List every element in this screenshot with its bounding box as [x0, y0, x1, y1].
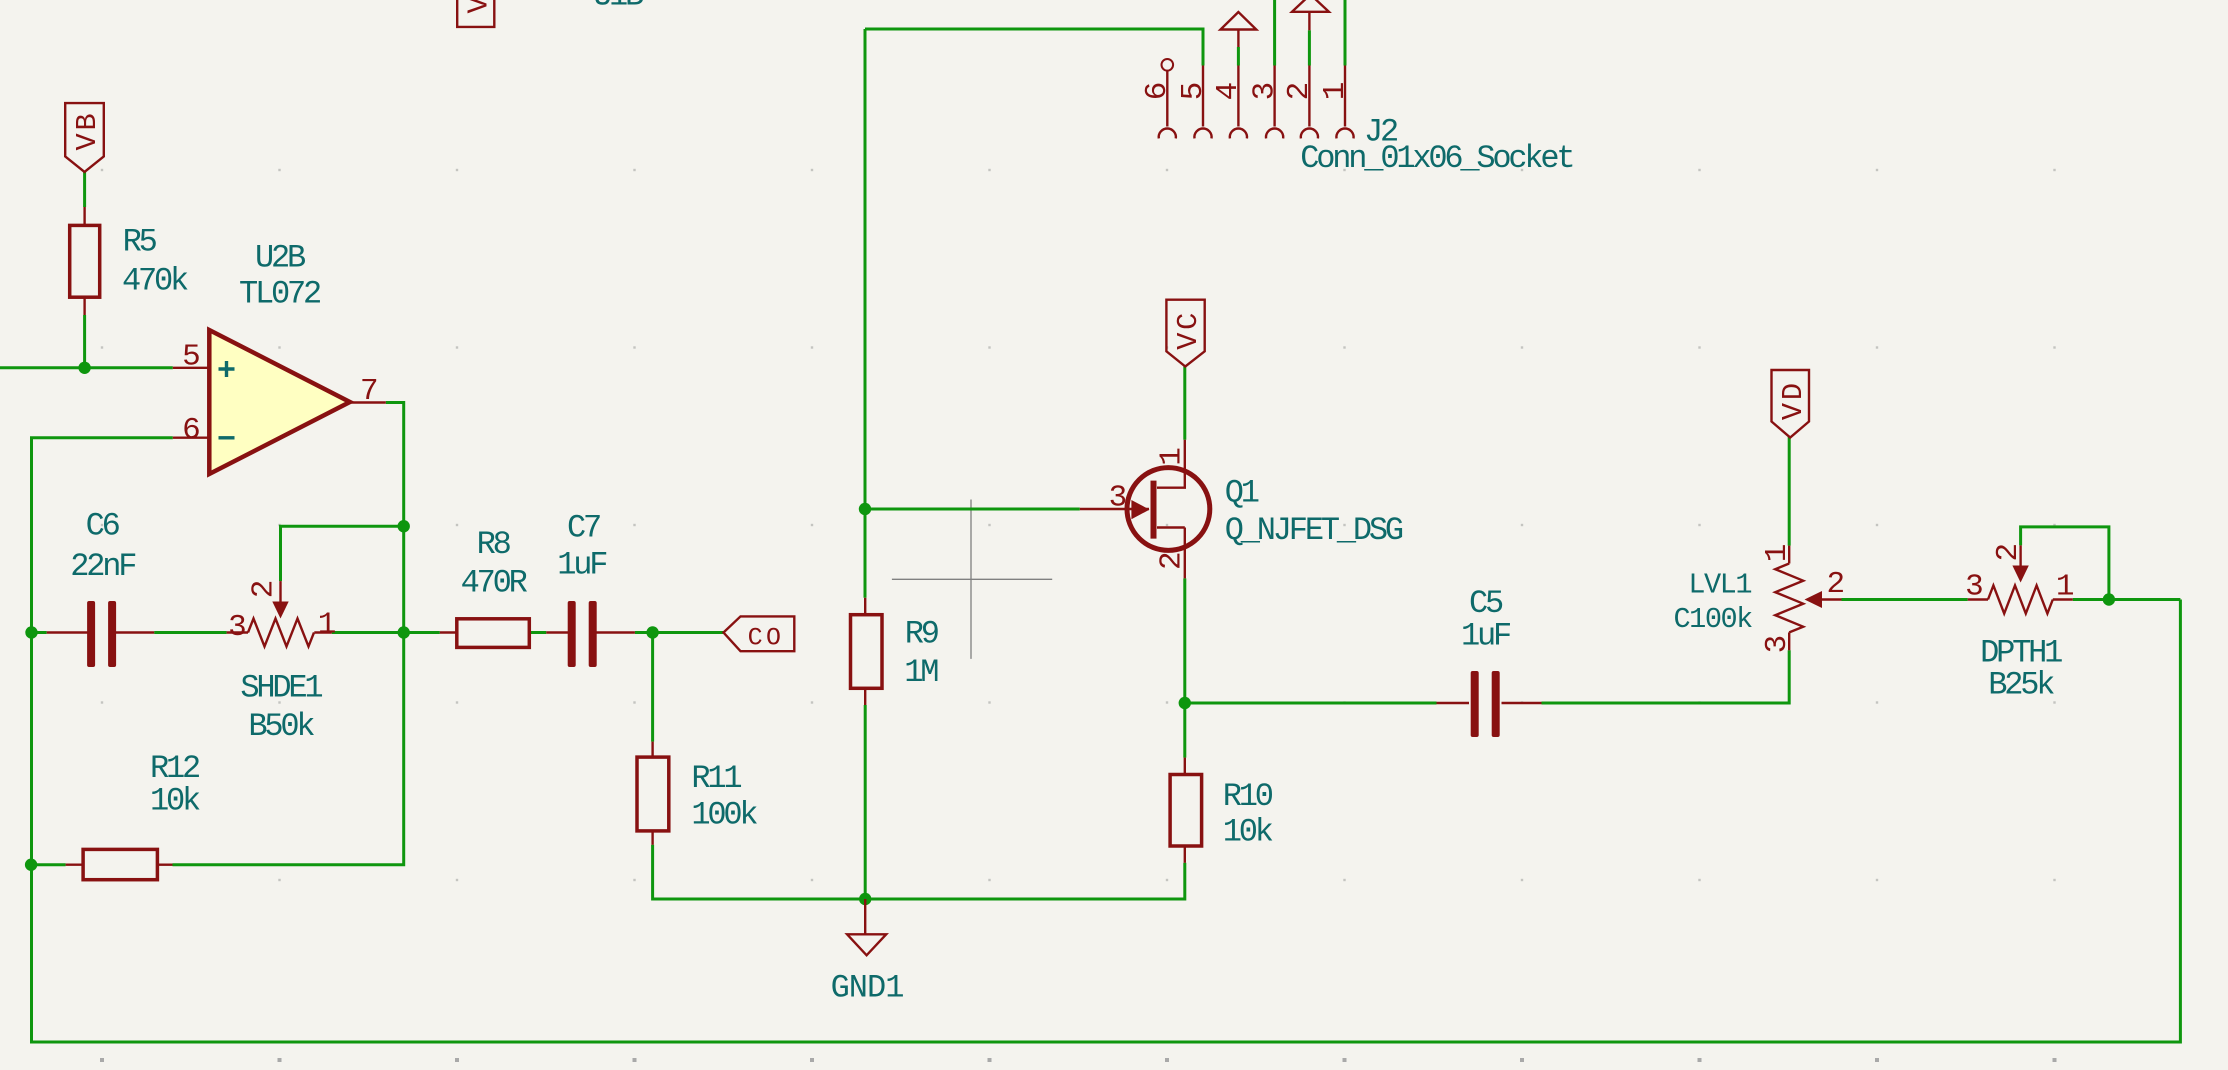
svg-text:V: V	[463, 0, 496, 13]
svg-text:GND1: GND1	[831, 969, 904, 1006]
svg-text:6: 6	[182, 413, 199, 448]
svg-text:470R: 470R	[461, 564, 528, 601]
svg-text:2: 2	[246, 581, 281, 598]
svg-text:VB: VB	[71, 111, 104, 151]
svg-text:Q1: Q1	[1225, 475, 1259, 512]
svg-text:1: 1	[2056, 569, 2074, 604]
svg-text:3: 3	[1965, 569, 1982, 604]
svg-text:10k: 10k	[150, 783, 200, 820]
svg-text:1uF: 1uF	[1461, 618, 1510, 655]
svg-text:SHDE1: SHDE1	[240, 670, 322, 707]
svg-text:10k: 10k	[1223, 814, 1273, 851]
svg-text:3: 3	[1109, 480, 1126, 515]
svg-text:1: 1	[318, 608, 336, 643]
svg-text:2: 2	[1155, 553, 1190, 570]
svg-text:U1B: U1B	[593, 0, 643, 15]
svg-text:1: 1	[1318, 82, 1353, 100]
svg-text:R5: R5	[123, 224, 157, 261]
svg-text:R10: R10	[1223, 778, 1273, 815]
svg-text:3: 3	[228, 610, 245, 645]
svg-text:C6: C6	[86, 507, 120, 544]
svg-text:R11: R11	[691, 760, 741, 797]
svg-text:R8: R8	[477, 526, 511, 563]
svg-text:2: 2	[1991, 545, 2026, 562]
svg-text:5: 5	[182, 340, 199, 375]
svg-text:C5: C5	[1469, 585, 1503, 622]
svg-text:1M: 1M	[904, 654, 938, 691]
svg-text:1: 1	[1760, 544, 1795, 562]
svg-text:2: 2	[1282, 83, 1317, 100]
svg-text:B50k: B50k	[248, 708, 314, 745]
svg-text:LVL1: LVL1	[1688, 568, 1751, 601]
svg-text:Conn_01x06_Socket: Conn_01x06_Socket	[1300, 140, 1572, 177]
svg-text:3: 3	[1247, 83, 1282, 100]
svg-text:U2B: U2B	[255, 239, 305, 276]
svg-text:22nF: 22nF	[70, 548, 135, 585]
svg-text:R9: R9	[905, 616, 938, 653]
svg-text:1uF: 1uF	[557, 547, 606, 584]
svg-text:Q_NJFET_DSG: Q_NJFET_DSG	[1225, 512, 1403, 549]
svg-text:CO: CO	[748, 624, 785, 653]
svg-text:TL072: TL072	[239, 276, 320, 313]
svg-text:C7: C7	[567, 510, 600, 547]
svg-text:3: 3	[1760, 636, 1795, 653]
svg-text:B25k: B25k	[1988, 667, 2054, 704]
svg-text:100k: 100k	[691, 797, 757, 834]
svg-text:VC: VC	[1172, 310, 1205, 350]
svg-text:1: 1	[1155, 448, 1190, 466]
svg-text:C100k: C100k	[1674, 603, 1753, 636]
svg-text:2: 2	[1827, 567, 1844, 602]
svg-text:6: 6	[1140, 83, 1175, 100]
svg-text:R12: R12	[150, 750, 199, 787]
svg-text:VD: VD	[1777, 380, 1810, 420]
svg-text:5: 5	[1176, 83, 1211, 100]
svg-text:470k: 470k	[122, 263, 188, 300]
svg-text:7: 7	[360, 374, 377, 409]
svg-text:4: 4	[1211, 82, 1246, 100]
